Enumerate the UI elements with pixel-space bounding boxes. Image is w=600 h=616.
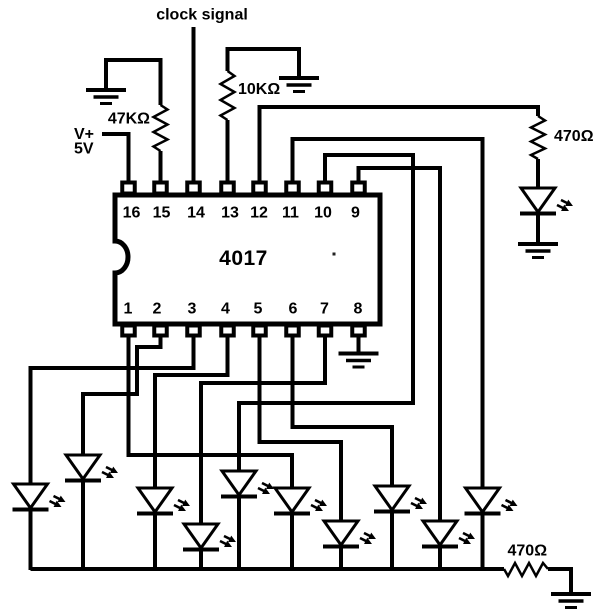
svg-text:9: 9 <box>351 205 360 222</box>
svg-text:5V: 5V <box>74 141 94 158</box>
svg-text:12: 12 <box>250 205 268 222</box>
svg-text:8: 8 <box>354 301 363 318</box>
svg-text:10: 10 <box>314 205 332 222</box>
svg-text:7: 7 <box>320 301 329 318</box>
svg-text:13: 13 <box>221 205 239 222</box>
svg-text:11: 11 <box>282 205 299 222</box>
svg-text:1: 1 <box>124 301 133 318</box>
svg-text:6: 6 <box>289 301 298 318</box>
svg-text:14: 14 <box>187 205 205 222</box>
svg-text:clock signal: clock signal <box>156 6 248 23</box>
svg-text:470Ω: 470Ω <box>554 128 594 145</box>
svg-text:10KΩ: 10KΩ <box>238 81 280 98</box>
svg-text:16: 16 <box>123 205 141 222</box>
svg-text:4: 4 <box>221 301 230 318</box>
svg-text:2: 2 <box>153 301 162 318</box>
svg-text:15: 15 <box>153 205 171 222</box>
svg-text:4017: 4017 <box>219 247 268 270</box>
svg-text:5: 5 <box>254 301 263 318</box>
svg-text:3: 3 <box>188 301 197 318</box>
svg-text:470Ω: 470Ω <box>508 543 548 560</box>
svg-text:47KΩ: 47KΩ <box>108 111 150 128</box>
